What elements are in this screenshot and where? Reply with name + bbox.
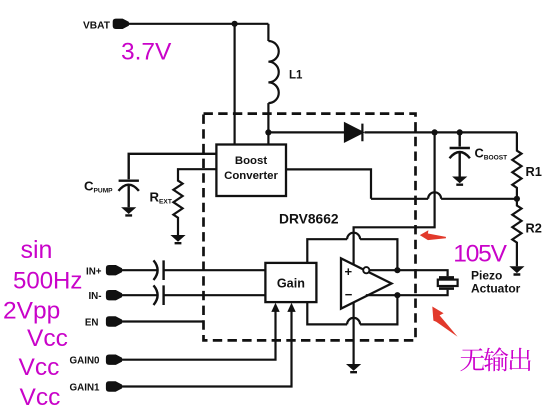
connector pin IN- bbox=[106, 291, 121, 300]
svg-text:Vcc: Vcc bbox=[19, 354, 60, 381]
junction dot boost output at feedback branch bbox=[432, 129, 438, 135]
wire VBAT to boost converter bbox=[234, 24, 236, 145]
svg-text:R1: R1 bbox=[526, 164, 542, 179]
wire output minus bbox=[366, 290, 448, 296]
text 出 bbox=[509, 348, 530, 371]
wire amp ground bbox=[353, 302, 355, 364]
resistor R1 bbox=[512, 132, 521, 198]
capacitor CBOOST bbox=[450, 132, 470, 176]
junction dot R1-R2 node bbox=[514, 196, 520, 202]
wire IN- lead bbox=[122, 294, 157, 296]
svg-text:GAIN1: GAIN1 bbox=[70, 382, 100, 393]
wire GAIN0 bbox=[122, 311, 276, 360]
svg-text:3.7V: 3.7V bbox=[121, 39, 172, 66]
ground R2 bbox=[509, 266, 524, 275]
svg-text:DRV8662: DRV8662 bbox=[279, 212, 339, 227]
wire IN+ lead bbox=[122, 269, 157, 271]
capacitor C IN- bbox=[154, 285, 164, 305]
connector pin IN+ bbox=[106, 266, 121, 275]
diode D1 bbox=[345, 124, 362, 142]
text 无 bbox=[460, 348, 484, 371]
wire feedback top bbox=[307, 233, 397, 271]
red arrow lower bbox=[432, 307, 457, 337]
wire GAIN1 bbox=[122, 311, 292, 387]
capacitor C IN+ bbox=[154, 260, 164, 280]
junction dot SW node bbox=[265, 129, 271, 135]
wire boost converter output bbox=[286, 169, 371, 198]
junction dot VBAT branch bbox=[232, 21, 238, 27]
wire VBAT rail bbox=[128, 23, 269, 25]
wire diode cathode to boost output node bbox=[365, 131, 517, 133]
arrowhead GAIN0 bbox=[271, 303, 279, 312]
connector pin GAIN0 bbox=[106, 355, 121, 364]
wire EN bbox=[122, 320, 204, 322]
svg-text:2Vpp: 2Vpp bbox=[3, 298, 60, 325]
boost converter box bbox=[216, 145, 286, 197]
svg-text:IN-: IN- bbox=[88, 291, 101, 302]
wire inductor top lead bbox=[267, 24, 269, 41]
svg-text:+: + bbox=[345, 264, 353, 279]
wire output plus bbox=[369, 270, 447, 276]
wire HV mid rail with hop bbox=[371, 192, 517, 198]
svg-text:105V: 105V bbox=[453, 240, 507, 267]
connector pin GAIN1 bbox=[106, 382, 121, 391]
ground REXT bbox=[170, 235, 185, 244]
resistor REXT bbox=[173, 169, 216, 235]
wire IN+ to gain bbox=[164, 269, 266, 271]
wire HV feedback to amplifier supply bbox=[354, 132, 435, 264]
junction dot boost output at CBOOST bbox=[457, 129, 463, 135]
svg-text:−: − bbox=[345, 287, 353, 302]
svg-text:CBOOST: CBOOST bbox=[475, 146, 508, 162]
arrowhead GAIN1 bbox=[287, 303, 295, 312]
svg-text:L1: L1 bbox=[289, 70, 303, 82]
svg-text:sin: sin bbox=[21, 236, 53, 264]
ground CPUMP bbox=[121, 207, 136, 216]
svg-text:GAIN0: GAIN0 bbox=[70, 356, 100, 367]
svg-text:Actuator: Actuator bbox=[471, 282, 521, 296]
text 输 bbox=[484, 347, 508, 371]
dashed box DRV8662 bbox=[204, 114, 416, 341]
svg-text:VBAT: VBAT bbox=[83, 20, 111, 31]
op-amp U1 bbox=[341, 258, 392, 308]
red arrow upper bbox=[420, 230, 446, 240]
svg-text:Converter: Converter bbox=[224, 170, 278, 182]
svg-text:Boost: Boost bbox=[235, 155, 267, 167]
ground amp bbox=[346, 364, 361, 373]
inductor L1 bbox=[268, 41, 278, 103]
wire IN- to gain bbox=[164, 294, 266, 296]
connector pin EN bbox=[106, 317, 121, 326]
svg-text:R2: R2 bbox=[526, 221, 542, 236]
svg-text:REXT: REXT bbox=[150, 190, 172, 206]
svg-text:Vcc: Vcc bbox=[20, 384, 61, 406]
ground CBOOST bbox=[452, 177, 467, 186]
wire SW node to diode anode bbox=[268, 131, 345, 133]
junction dot output plus bbox=[394, 267, 400, 273]
svg-text:IN+: IN+ bbox=[86, 266, 102, 277]
svg-text:Vcc: Vcc bbox=[27, 325, 68, 352]
wire feedback bottom bbox=[307, 295, 397, 324]
piezo actuator element bbox=[439, 277, 454, 288]
svg-text:EN: EN bbox=[85, 318, 99, 329]
capacitor CPUMP bbox=[119, 154, 217, 207]
svg-text:500Hz: 500Hz bbox=[13, 268, 82, 295]
connector pin VBAT bbox=[113, 19, 128, 28]
junction dot output minus bbox=[394, 292, 400, 298]
resistor R2 bbox=[512, 199, 521, 266]
gain box bbox=[265, 263, 316, 302]
wire inductor bottom lead to SW pin bbox=[267, 103, 269, 144]
svg-text:Piezo: Piezo bbox=[471, 269, 502, 283]
svg-text:Gain: Gain bbox=[277, 277, 305, 291]
bubble inverting output bbox=[363, 267, 369, 273]
svg-text:CPUMP: CPUMP bbox=[84, 179, 113, 195]
